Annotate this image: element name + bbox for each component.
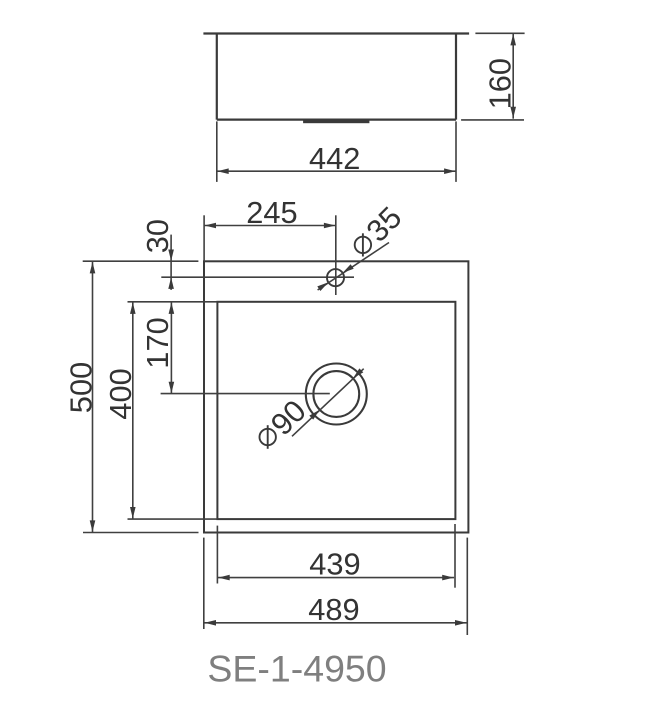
svg-text:442: 442 (309, 141, 360, 176)
svg-text:500: 500 (64, 362, 99, 413)
svg-text:245: 245 (246, 195, 297, 230)
svg-text:170: 170 (140, 317, 175, 368)
svg-text:400: 400 (103, 368, 138, 419)
svg-text:439: 439 (309, 547, 360, 582)
svg-text:160: 160 (483, 58, 518, 109)
svg-text:SE-1-4950: SE-1-4950 (207, 648, 386, 690)
svg-text:30: 30 (140, 219, 175, 253)
svg-text:489: 489 (308, 592, 359, 627)
